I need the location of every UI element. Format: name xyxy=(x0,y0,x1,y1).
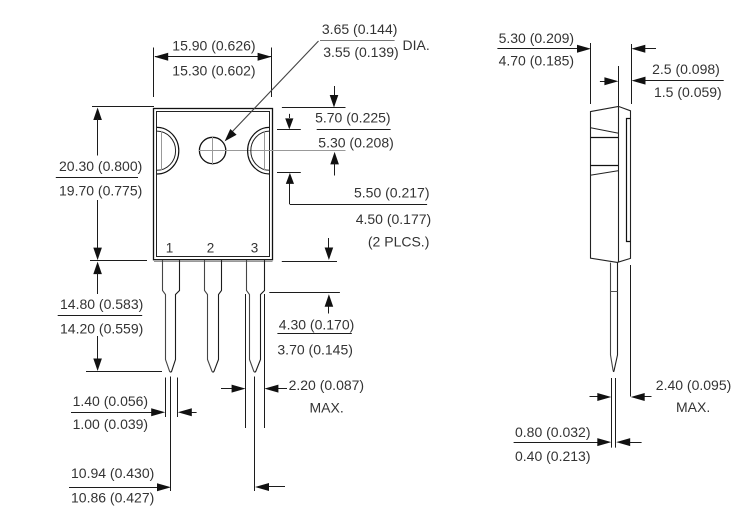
svg-text:1.00 (0.039): 1.00 (0.039) xyxy=(73,416,149,432)
svg-text:5.50 (0.217): 5.50 (0.217) xyxy=(354,185,430,201)
side view: mold chamfer line lower slant xyxy=(590,171,618,176)
dim notch: small down arrow xyxy=(289,114,291,118)
dim hole position: top edge extension line xyxy=(282,107,346,109)
pin 1 narrow-width extension line right xyxy=(177,378,179,418)
side view: mold line upper horizontal xyxy=(591,137,618,139)
dim lead thickness: left-pointing arrow xyxy=(616,438,630,446)
left side notch outer arc xyxy=(157,127,179,174)
svg-text:2.20 (0.087): 2.20 (0.087) xyxy=(289,377,365,393)
svg-text:0.40 (0.213): 0.40 (0.213) xyxy=(515,448,591,464)
dim tab thickness: left-pointing arrow with fraction bar xyxy=(632,77,646,85)
front view: package body inner outline xyxy=(157,112,270,257)
dim body height: fraction bar xyxy=(56,177,138,179)
pin 3 lead outline xyxy=(247,260,255,372)
dim notch: leader line to label xyxy=(290,204,427,206)
dim hole diameter: leader arrowhead at hole xyxy=(225,129,237,141)
svg-text:5.70 (0.225): 5.70 (0.225) xyxy=(315,110,391,126)
pin 3 wide-width extension line left xyxy=(245,294,247,428)
svg-text:20.30 (0.800): 20.30 (0.800) xyxy=(59,158,142,174)
dim notch: up arrow below bottom tick xyxy=(286,173,294,184)
svg-text:DIA.: DIA. xyxy=(403,37,430,53)
svg-text:MAX.: MAX. xyxy=(676,399,710,415)
side view: lead right edge xyxy=(614,262,618,372)
mounting hole horizontal centerline / leader to 5.30 label xyxy=(199,150,346,152)
pin 1 centerline extension xyxy=(170,377,172,492)
dim lead narrow width: right arrow and tail xyxy=(178,408,192,416)
svg-text:1: 1 xyxy=(166,241,174,256)
dim lead offset 2.40 MAX: left arrow xyxy=(590,396,598,398)
side view: mold chamfer line upper slant xyxy=(591,128,618,133)
side view: metal tab inset line xyxy=(627,119,631,242)
svg-text:1.5 (0.059): 1.5 (0.059) xyxy=(654,84,722,100)
svg-text:4.30 (0.170): 4.30 (0.170) xyxy=(279,317,355,333)
dim lead length: fraction bar xyxy=(58,315,143,317)
side view: lead step tick xyxy=(611,291,618,293)
svg-text:3.70 (0.145): 3.70 (0.145) xyxy=(277,341,353,357)
dim wide lead length: down arrow xyxy=(328,238,330,249)
lead tip level extension line xyxy=(86,371,162,373)
dim hole diameter: fraction bar xyxy=(320,40,395,42)
svg-text:1.40 (0.056): 1.40 (0.056) xyxy=(73,393,149,409)
mounting hole circle xyxy=(199,137,225,163)
side view: left face top extension line xyxy=(590,43,592,104)
dim wide lead length: step level extension line xyxy=(269,292,340,294)
side view: mid top extension line xyxy=(618,66,620,107)
dim hole position: up arrow at hole centerline xyxy=(330,152,339,165)
svg-text:5.30 (0.209): 5.30 (0.209) xyxy=(499,30,574,46)
dim hole position: fraction bar xyxy=(317,129,391,131)
left side notch chord line xyxy=(161,131,163,171)
side view: body outline xyxy=(591,106,631,262)
svg-text:MAX.: MAX. xyxy=(310,399,344,415)
right side notch chord line xyxy=(264,131,266,171)
dim lead length: up arrow at body bottom xyxy=(93,262,102,275)
svg-text:15.90 (0.626): 15.90 (0.626) xyxy=(172,38,255,54)
dim body width: right extension line xyxy=(271,48,273,98)
svg-text:5.30 (0.208): 5.30 (0.208) xyxy=(318,134,394,150)
side view: back face top extension line xyxy=(631,44,633,104)
svg-text:(2 PLCS.): (2 PLCS.) xyxy=(368,233,429,249)
svg-text:14.80 (0.583): 14.80 (0.583) xyxy=(60,296,143,312)
dim notch: bottom tick line xyxy=(277,172,301,174)
svg-text:0.80 (0.032): 0.80 (0.032) xyxy=(515,424,591,440)
dim body height: bottom extension line xyxy=(90,260,147,262)
dim body thickness: fraction bar with right arrow xyxy=(497,48,578,50)
pin 3 centerline extension xyxy=(254,377,256,492)
pin 1 narrow-width extension line left xyxy=(165,378,167,418)
dim pin span: dimension line left with arrow xyxy=(69,487,158,489)
dim tab thickness: right-pointing arrow xyxy=(600,81,605,83)
right side notch inner arc xyxy=(251,131,270,170)
svg-text:19.70 (0.775): 19.70 (0.775) xyxy=(59,183,142,199)
svg-text:10.94 (0.430): 10.94 (0.430) xyxy=(71,465,154,481)
dim wide lead width: left arrow xyxy=(221,388,233,390)
front view: package body outer outline xyxy=(154,109,273,260)
svg-text:15.30 (0.602): 15.30 (0.602) xyxy=(172,63,255,79)
svg-text:4.70 (0.185): 4.70 (0.185) xyxy=(499,52,574,68)
side view: back face extension line down xyxy=(630,265,632,397)
dim body height: down arrow xyxy=(93,248,102,261)
pin 1 lead outline xyxy=(163,260,171,372)
svg-text:2.5 (0.098): 2.5 (0.098) xyxy=(652,61,720,77)
side view: front-right vertical edge xyxy=(618,106,620,262)
svg-text:2.40 (0.095): 2.40 (0.095) xyxy=(656,377,732,393)
dim body height: up arrow xyxy=(93,108,102,121)
dim hole diameter: diagonal leader line xyxy=(231,41,319,133)
dim lead offset 2.40 MAX: right arrow xyxy=(631,393,645,401)
dim wide lead length: up arrow xyxy=(325,294,334,307)
dim lead length: down arrow at lead tip line xyxy=(93,359,102,372)
dim body width: left extension line xyxy=(153,48,155,98)
side view: lead thickness extension line left xyxy=(611,378,613,448)
dim body width: dimension line with arrowheads xyxy=(155,56,271,58)
dim lead narrow width: dimension line left with arrow xyxy=(71,412,152,414)
right side notch outer arc xyxy=(248,127,270,174)
dim lead thickness: fraction bar with right arrow xyxy=(514,442,598,444)
dim wide lead width: right arrow xyxy=(264,385,278,393)
svg-text:2: 2 xyxy=(207,241,215,256)
svg-text:3.65 (0.144): 3.65 (0.144) xyxy=(322,21,398,37)
side view: mold line lower horizontal xyxy=(590,165,618,167)
side view: lead thickness extension line right xyxy=(615,378,617,448)
left side notch inner arc xyxy=(157,131,176,170)
svg-text:14.20 (0.559): 14.20 (0.559) xyxy=(60,320,143,336)
dim wide lead length: fraction bar xyxy=(277,333,351,335)
dim wide lead length: body bottom extension line xyxy=(282,261,337,263)
svg-text:3.55 (0.139): 3.55 (0.139) xyxy=(323,44,399,60)
pin 2 lead outline xyxy=(205,260,214,372)
svg-text:10.86 (0.427): 10.86 (0.427) xyxy=(71,489,154,505)
pin 3 wide-width extension line right xyxy=(264,294,266,428)
side view: lead left edge xyxy=(611,263,614,372)
dim notch: top tick line xyxy=(277,129,301,131)
dim hole position: down arrow at top edge xyxy=(334,86,336,96)
mounting hole vertical centerline xyxy=(212,136,214,165)
dim pin span: right arrow and tail xyxy=(255,483,269,491)
svg-text:3: 3 xyxy=(251,241,259,256)
dim body thickness: left-pointing arrow on right side xyxy=(631,45,645,53)
front view: seating line under body xyxy=(154,261,273,263)
svg-text:4.50 (0.177): 4.50 (0.177) xyxy=(356,211,432,227)
dim body height: top extension line xyxy=(92,106,154,108)
